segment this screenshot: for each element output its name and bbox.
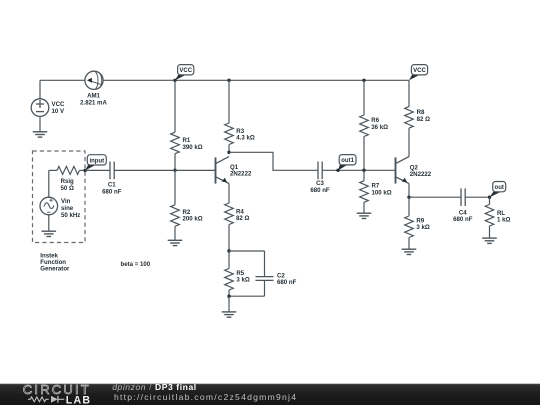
ground R7 [357,213,372,218]
node Q1 collector [227,151,230,154]
wire rail to R3 [228,80,230,123]
transistor Q1 2N2222 [216,157,230,184]
node R5-C2 bottom [227,295,230,298]
wire R7 to ground [363,202,365,213]
capacitor C1 [109,162,111,180]
resistor R2 [171,205,180,227]
node out [488,196,491,199]
wire Rsig to input node [79,169,85,171]
ground VCC source [33,132,48,137]
dashed box Instek function generator [33,151,86,243]
ground RL [482,238,497,243]
wire out node to RL [489,197,491,204]
svg-text:http://circuitlab.com/c2z54dgm: http://circuitlab.com/c2z54dgmm9nj4 [114,392,297,402]
svg-text:VCC: VCC [179,68,192,74]
wire input node to C1 [85,169,110,171]
voltage source Vin sine [40,197,58,215]
node rail-R6 [362,79,365,82]
resistor RL [485,205,494,227]
node divider [362,169,365,172]
svg-text:dpinzon / DP3 final: dpinzon / DP3 final [112,382,197,392]
node input [84,169,87,172]
wire R8 to Q2 collector [408,128,410,157]
wire C1 to Q1 base [114,169,215,171]
svg-text:out1: out1 [341,158,354,164]
wire rail to R6 [363,80,365,115]
transistor Q2 2N2222 [396,157,410,184]
svg-text:beta = 100: beta = 100 [121,261,151,268]
wire C3 to Q2 base [322,169,395,171]
wire rail to R8 [408,80,410,106]
svg-text:LAB: LAB [66,395,91,405]
wire R6 to divider node [363,137,365,171]
wire Vin to Rsig [49,169,57,171]
wire C2 bottom to node [264,280,266,296]
wire emitter node to R9 [408,197,410,216]
node R1-R2-base junction [173,169,176,172]
logo zigzag and diode [28,397,49,402]
resistor R6 [360,115,369,137]
net flag out [490,192,501,197]
svg-text:input: input [89,158,104,164]
svg-text:out: out [495,185,504,191]
ground Vin [42,231,57,236]
ground R5 [222,312,237,317]
resistor R3 [225,123,234,145]
resistor R9 [405,216,414,238]
resistor R7 [360,181,369,203]
wire rail to R1 [174,80,176,132]
capacitor C2 [256,276,274,278]
wire top VCC rail [40,79,85,81]
wire R4 to R5 node [228,225,230,252]
ground R2 [168,240,183,245]
resistor R8 [405,107,414,129]
wire C4 to out node [465,196,489,198]
wire Q1 emitter to R4 [228,184,230,203]
resistor Rsig [57,166,79,174]
net flag VCC right [409,75,420,80]
ground R9 [402,249,417,254]
wire R5 to bottom node [228,290,230,296]
capacitor C3 [317,162,319,180]
wire Q1 collector to C3 [229,152,318,170]
wire RL to ground [489,226,491,238]
voltage source VCC [31,99,49,117]
node R5-C2 top [227,249,230,252]
net flag input [85,165,95,170]
wire emitter node to C4 [409,196,461,198]
wire Q2 emitter to node [408,184,410,198]
wire junction to R2 [174,170,176,205]
resistor R4 [225,203,234,225]
node out1 [336,169,339,172]
wire node to C2 top [229,250,265,252]
wire R9 to ground [408,238,410,250]
capacitor C4 [460,188,462,206]
wire R3 to collector node [228,145,230,153]
node Q2 emitter [407,196,410,199]
svg-text:Rsig50 Ω: Rsig50 Ω [61,178,75,192]
wire VCC source riser [39,80,41,99]
wire VCC source to ground [39,116,41,131]
wire R2 to ground [174,226,176,240]
svg-text:VCC10 V: VCC10 V [52,101,65,115]
wire bottom node to ground [228,296,230,312]
wire divider to R7 [363,170,365,181]
resistor R5 [228,251,230,269]
node rail-R3 [227,79,230,82]
svg-text:VCC: VCC [413,68,426,74]
ammeter AM1 [85,71,103,89]
net flag VCC left [173,79,176,82]
wire R1 to input rail [174,154,176,171]
net flag out1 [338,165,347,170]
wire Vin to ground [48,215,50,231]
resistor R1 [171,132,180,154]
